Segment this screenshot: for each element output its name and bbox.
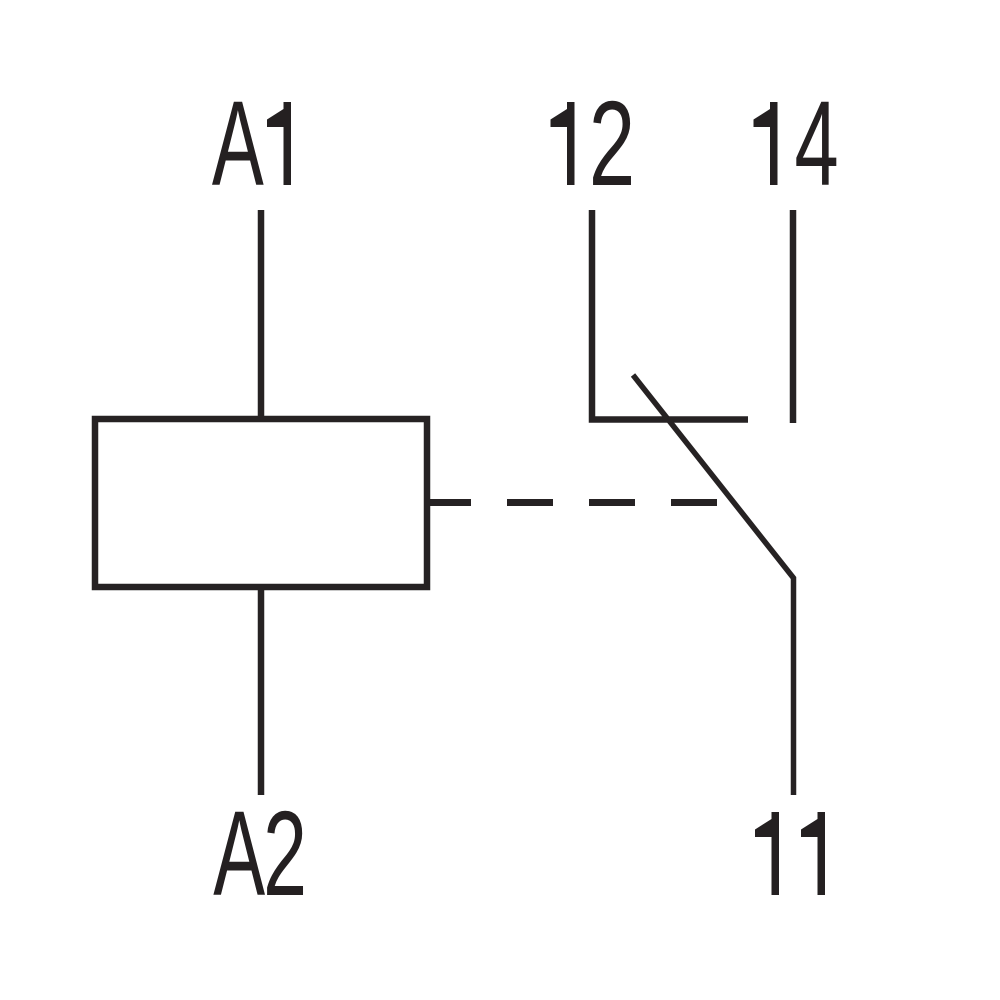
svg-text:4: 4 bbox=[795, 76, 839, 211]
svg-text:A: A bbox=[213, 787, 265, 921]
svg-text:2: 2 bbox=[589, 76, 635, 211]
svg-text:A: A bbox=[212, 77, 264, 211]
svg-text:2: 2 bbox=[263, 786, 307, 921]
